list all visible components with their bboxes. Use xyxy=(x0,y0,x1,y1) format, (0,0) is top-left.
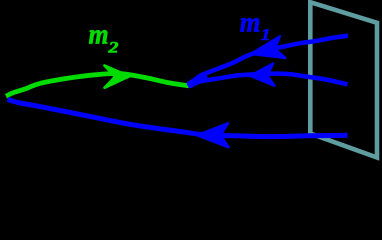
svg-text:2: 2 xyxy=(107,38,118,56)
screen (tilted rectangle) xyxy=(310,2,377,157)
arrowhead on upper blue ray m1 xyxy=(251,36,286,58)
wire: middle blue ray m1 (shallow) xyxy=(188,74,348,86)
wire: upper blue ray m1 (steep) xyxy=(188,36,348,86)
arrowhead on long lower blue ray xyxy=(197,123,229,147)
junction fill where blue rays merge xyxy=(189,77,208,85)
wire: light ray m2 (green curved ray, observer to lens) xyxy=(6,73,189,96)
arrowhead on middle blue ray m1 xyxy=(250,63,275,86)
arrowhead on green ray m2 xyxy=(104,66,129,88)
svg-text:1: 1 xyxy=(261,25,271,44)
label m2 xyxy=(89,18,109,50)
svg-text:m: m xyxy=(240,7,261,38)
label m1 xyxy=(240,7,261,38)
wire: long lower blue ray (source to observer) xyxy=(8,100,348,137)
svg-text:m: m xyxy=(89,18,109,50)
